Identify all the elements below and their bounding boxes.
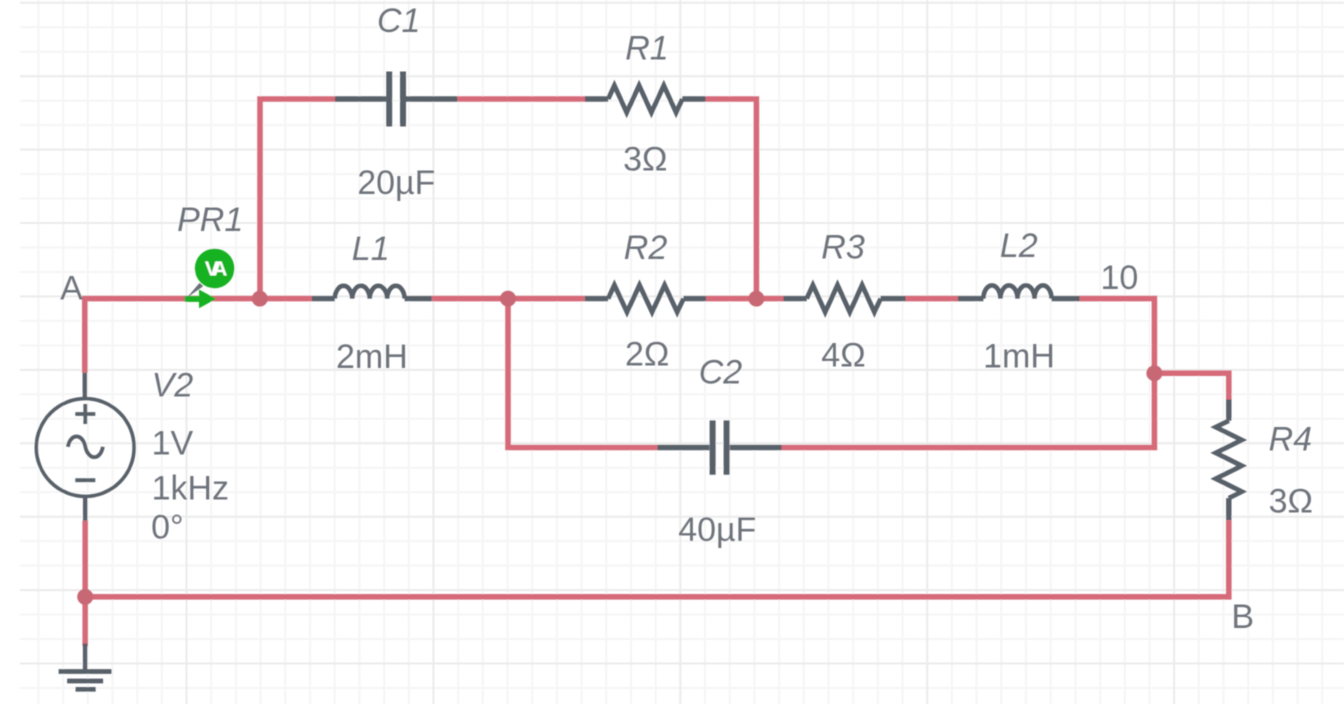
svg-text:V2: V2 (152, 367, 194, 405)
junction node at C2 branch (500, 291, 516, 307)
wire C1 branch up from A row (260, 99, 336, 299)
resistor R1 (585, 86, 706, 113)
svg-text:20µF: 20µF (357, 164, 435, 202)
inductor L2 (958, 285, 1080, 298)
svg-text:1V: 1V (152, 425, 194, 463)
wire L2 to node 10 corner down to C2 right (782, 299, 1155, 448)
junction node at R2 right (748, 291, 764, 307)
resistor R2 (585, 285, 706, 312)
svg-text:40µF: 40µF (678, 511, 756, 549)
wire R1 to junction down (706, 99, 757, 299)
svg-text:1mH: 1mH (983, 338, 1055, 376)
wire C1 to R1 (457, 96, 585, 102)
junction node at L1 left (252, 291, 268, 307)
svg-text:2mH: 2mH (336, 338, 408, 376)
wire L1 to R2 (432, 296, 585, 302)
svg-text:PR1: PR1 (177, 201, 243, 239)
resistor R4 (1216, 400, 1242, 521)
svg-text:R4: R4 (1269, 420, 1312, 458)
wire node 10 to R4 top (1154, 373, 1228, 400)
svg-text:0°: 0° (151, 508, 184, 546)
svg-text:4Ω: 4Ω (821, 337, 865, 375)
svg-text:R2: R2 (624, 229, 668, 267)
svg-text:2Ω: 2Ω (625, 335, 669, 373)
svg-text:C1: C1 (377, 2, 420, 40)
wire bottom node to ground (82, 597, 88, 646)
svg-text:L2: L2 (1000, 227, 1038, 265)
svg-text:A: A (60, 270, 83, 308)
svg-text:R1: R1 (625, 30, 668, 68)
capacitor C1 (335, 72, 457, 127)
junction node 10 junction (1146, 365, 1162, 381)
probe PR1 (185, 249, 235, 309)
junction ground node (77, 589, 93, 605)
svg-text:R3: R3 (821, 228, 865, 266)
svg-text:C2: C2 (699, 353, 743, 391)
wire V2 minus to bottom rail (82, 521, 88, 597)
svg-text:3Ω: 3Ω (623, 141, 667, 179)
resistor R3 (784, 285, 906, 312)
svg-text:L1: L1 (352, 230, 390, 268)
wire R3 to L2 (906, 296, 959, 302)
wire R2 to R3 through junction (706, 296, 784, 302)
ground (59, 644, 112, 690)
svg-text:10: 10 (1101, 259, 1139, 297)
capacitor C2 (658, 420, 782, 474)
svg-text:B: B (1231, 598, 1254, 636)
voltage source V2 (36, 373, 134, 521)
wire C2 branch left: down from A row to C2 (508, 299, 658, 448)
inductor L1 (312, 286, 432, 299)
svg-text:3Ω: 3Ω (1269, 483, 1313, 521)
wire net A: left rail and A row to L1 (85, 299, 312, 373)
wire R4 bottom and bottom rail to ground node (85, 520, 1229, 597)
svg-text:1kHz: 1kHz (152, 469, 229, 507)
